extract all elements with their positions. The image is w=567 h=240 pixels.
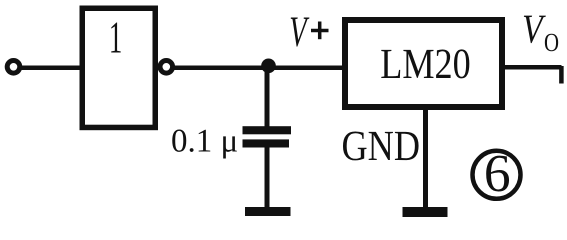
junction node (261, 59, 276, 74)
box U1 "1" (82, 8, 155, 127)
figure number 6 circle (473, 151, 521, 199)
wire LM20 output (503, 65, 562, 70)
svg-text:GND: GND (342, 123, 421, 170)
capacitor C1 bottom plate (243, 139, 290, 147)
wire input to box 1 (21, 66, 81, 71)
svg-text:V: V (289, 8, 309, 56)
wire LM20 gnd pin (423, 108, 428, 208)
svg-text:V: V (522, 5, 546, 51)
svg-text:6: 6 (484, 143, 511, 203)
svg-text:O: O (544, 28, 559, 57)
svg-text:LM20: LM20 (380, 41, 471, 88)
output bubble (160, 61, 173, 74)
capacitor C1 top plate (243, 126, 292, 134)
svg-text:0.1 μ: 0.1 μ (171, 124, 238, 160)
ground (LM20) (403, 207, 448, 217)
wire junction to capacitor (265, 64, 270, 127)
wire output corner down (559, 66, 564, 84)
ground (capacitor) (245, 207, 291, 216)
regulator LM20 box (345, 20, 502, 107)
input terminal (7, 61, 20, 74)
svg-text:1: 1 (109, 12, 122, 63)
wire capacitor to ground (265, 146, 270, 209)
wire bubble to LM20 (175, 66, 345, 71)
plus sign of V+ (311, 29, 329, 33)
